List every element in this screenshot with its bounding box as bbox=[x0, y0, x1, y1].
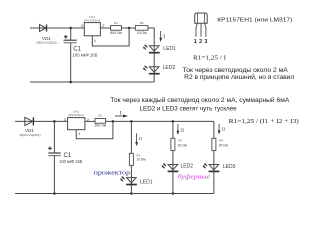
node: R1/feedback junction (top) bbox=[128, 27, 131, 30]
wire: C1 lower lead to rail (top) bbox=[70, 43, 72, 82]
wire: VD1 to IC pin 3 (top) bbox=[47, 27, 85, 29]
node: LED1 branch junction (bottom) bbox=[130, 120, 133, 123]
wire: top circuit input (upper) bbox=[30, 27, 47, 29]
svg-text:I: I bbox=[120, 110, 122, 116]
LED2 (bottom circuit) bbox=[162, 163, 179, 171]
node: C1 junction (bottom) bbox=[53, 120, 56, 123]
svg-text:10 Ом: 10 Ом bbox=[137, 31, 147, 35]
wire: LED2 branch (bottom) bbox=[172, 121, 174, 193]
wire: C1 upper lead (top) bbox=[70, 28, 72, 40]
node: LED2 on rail bbox=[172, 192, 175, 195]
svg-text:R1=1,25 / I: R1=1,25 / I bbox=[193, 56, 226, 62]
svg-text:LED2: LED2 bbox=[163, 65, 176, 71]
TO-92 package drawing bbox=[195, 13, 208, 37]
svg-text:прожектор: прожектор bbox=[94, 170, 131, 176]
svg-text:604 Ом: 604 Ом bbox=[110, 31, 122, 35]
svg-text:100 мкФ 16В: 100 мкФ 16В bbox=[73, 52, 98, 57]
svg-text:I2: I2 bbox=[181, 128, 185, 133]
resistor R2 (top): body bbox=[135, 26, 148, 31]
node: C1 junction (top) bbox=[69, 27, 72, 30]
voltage regulator IC DA1 (top): box bbox=[84, 23, 100, 36]
svg-text:КР1157ЕН1 (или LM317): КР1157ЕН1 (или LM317) bbox=[217, 17, 292, 23]
current arrow I (top circuit) bbox=[159, 31, 162, 42]
wire: VD1 to IC pin 3 (bottom) bbox=[33, 120, 68, 122]
wire: IC pin 2 to R1 (bottom) bbox=[85, 120, 95, 122]
svg-text:R2 в принципе лишний, но я ста: R2 в принципе лишний, но я ставил bbox=[184, 74, 294, 81]
svg-text:КР1157ЕН1: КР1157ЕН1 bbox=[84, 19, 100, 23]
capacitor C1 (top): plates and + sign bbox=[64, 35, 77, 43]
svg-text:R4: R4 bbox=[219, 138, 223, 142]
resistor R4 (bottom branch 3): body bbox=[212, 138, 216, 150]
svg-text:КД520 (КД521): КД520 (КД521) bbox=[36, 41, 57, 45]
wire: top circuit bottom rail bbox=[30, 81, 154, 83]
voltage regulator IC DA1 (bottom): box bbox=[68, 118, 85, 130]
current arrow I1 bbox=[135, 133, 138, 146]
diode VD1 (top circuit) bbox=[40, 25, 47, 32]
capacitor C1 (bottom): plates and + sign bbox=[48, 147, 61, 156]
svg-text:LED2 и LED3 светят чуть тускле: LED2 и LED3 светят чуть тусклее bbox=[140, 105, 238, 112]
node: LED2 branch junction (bottom) bbox=[172, 120, 175, 123]
svg-text:R1: R1 bbox=[114, 21, 118, 25]
svg-text:R1: R1 bbox=[98, 113, 102, 117]
svg-text:R1=1,25 / (I1 + I2 + I3): R1=1,25 / (I1 + I2 + I3) bbox=[229, 118, 299, 125]
node: LED1 on rail bbox=[130, 192, 133, 195]
svg-text:буферные: буферные bbox=[178, 173, 211, 180]
wire: bottom circuit input (upper) bbox=[15, 120, 33, 122]
diode VD1 (bottom circuit) bbox=[25, 117, 34, 125]
wire: LED1 branch (bottom) bbox=[130, 121, 132, 193]
wire: LED3 branch (bottom) bbox=[213, 121, 215, 193]
LED1 (top circuit) bbox=[143, 45, 160, 53]
svg-text:R3: R3 bbox=[178, 138, 182, 142]
node: C1 on rail (bottom) bbox=[53, 192, 56, 195]
svg-text:Ток через каждый светодиод око: Ток через каждый светодиод около 2 мА, с… bbox=[110, 97, 290, 104]
resistor R3 (bottom branch 2): body bbox=[171, 138, 175, 150]
svg-text:200 Ом: 200 Ом bbox=[95, 123, 107, 127]
svg-text:100 мкФ 16В: 100 мкФ 16В bbox=[59, 159, 82, 164]
wire: feedback from pin 1 (bottom) bbox=[76, 121, 113, 138]
node: feedback junction (bottom) bbox=[112, 120, 115, 123]
svg-text:LED3: LED3 bbox=[223, 164, 236, 170]
wire: feedback from pin 1 to junction (top) bbox=[92, 28, 129, 46]
wire: C1 lower lead to rail (bottom) bbox=[53, 156, 55, 194]
LED1 (bottom circuit) bbox=[120, 176, 137, 184]
current arrow I (bottom circuit) bbox=[115, 115, 128, 118]
resistor R1 (top): body bbox=[111, 26, 122, 31]
wire: R2 to LED branch corner (top) bbox=[148, 28, 154, 82]
svg-text:КД520 (КД521): КД520 (КД521) bbox=[19, 133, 40, 137]
LED2 (top circuit) bbox=[143, 66, 160, 74]
resistor R1 (bottom): body bbox=[95, 119, 106, 124]
svg-text:C1: C1 bbox=[64, 153, 72, 159]
svg-text:I: I bbox=[163, 34, 165, 40]
current arrow I3 bbox=[218, 124, 221, 135]
svg-text:20 Ом: 20 Ом bbox=[219, 144, 228, 148]
wire: C1 upper lead (bottom) bbox=[53, 121, 55, 153]
svg-text:LED2: LED2 bbox=[181, 163, 194, 169]
wire: bottom circuit bottom rail bbox=[15, 193, 214, 195]
svg-text:20 Ом: 20 Ом bbox=[178, 144, 187, 148]
wire: R1 to LED branches (bottom main rail) bbox=[106, 120, 214, 122]
LED3 (bottom circuit) bbox=[203, 163, 220, 171]
svg-text:LED1: LED1 bbox=[140, 179, 153, 185]
svg-text:LED1: LED1 bbox=[163, 46, 176, 52]
current arrow I2 bbox=[177, 124, 180, 135]
svg-text:Ток через светодиоды около 2 м: Ток через светодиоды около 2 мА bbox=[183, 67, 289, 74]
node: C1 on rail (top) bbox=[69, 81, 72, 84]
svg-text:1 2 3: 1 2 3 bbox=[194, 39, 208, 45]
svg-text:R2: R2 bbox=[140, 21, 144, 25]
wire: R1 to R2 with junction (top) bbox=[122, 27, 136, 29]
svg-text:КР1157ЕН1: КР1157ЕН1 bbox=[68, 113, 84, 117]
resistor R2 (bottom branch 1): body bbox=[129, 153, 133, 165]
svg-text:I1: I1 bbox=[139, 136, 143, 141]
svg-text:10 Ом: 10 Ом bbox=[136, 157, 145, 161]
wire: IC pin 2 to R1 (top) bbox=[100, 27, 110, 29]
